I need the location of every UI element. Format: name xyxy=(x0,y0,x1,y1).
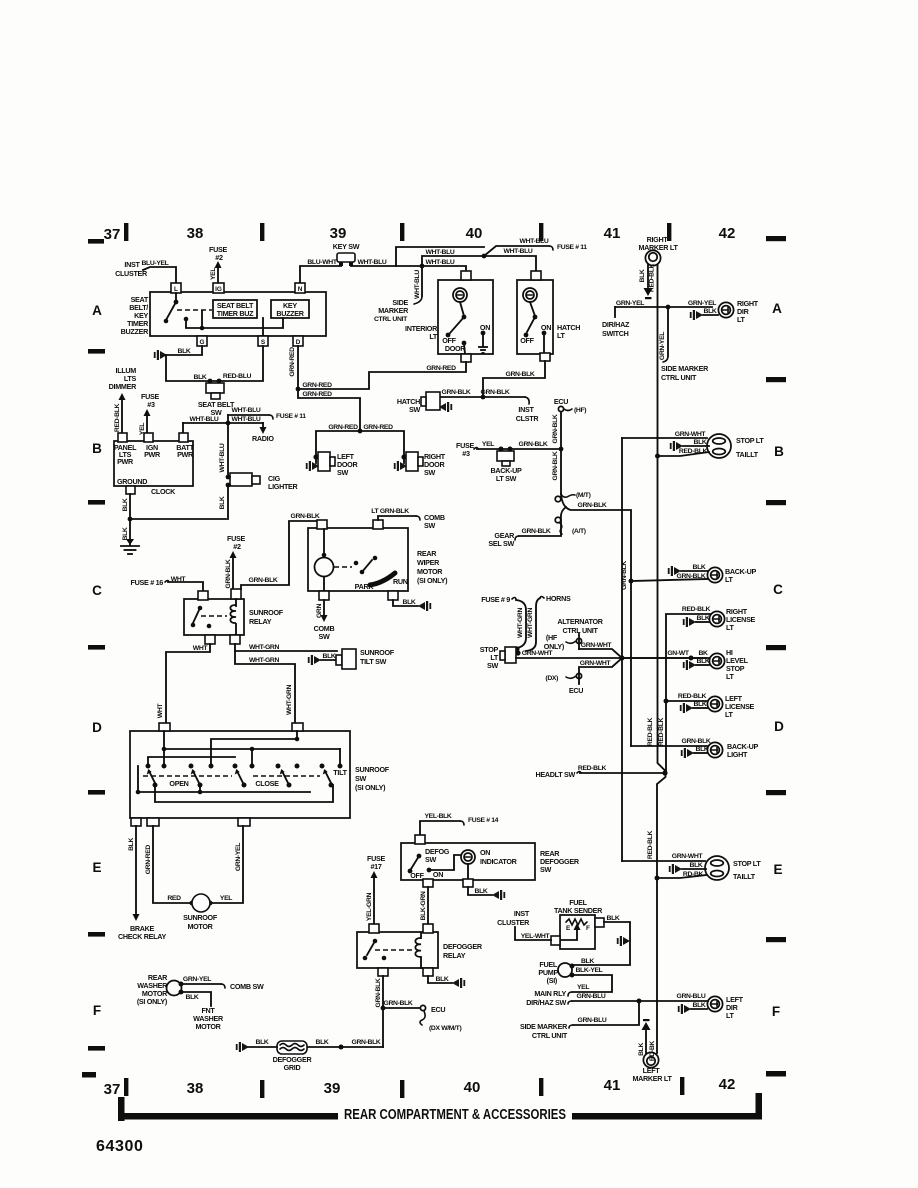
top-left tick dash xyxy=(88,239,104,244)
bottom title bracket xyxy=(118,1097,125,1121)
svg-text:ECU: ECU xyxy=(554,397,568,406)
svg-text:WHT-BLU: WHT-BLU xyxy=(504,248,533,255)
key sw xyxy=(337,253,355,262)
svg-text:RED-BLK: RED-BLK xyxy=(649,263,656,292)
svg-text:42: 42 xyxy=(719,1076,736,1093)
svg-text:ECU: ECU xyxy=(431,1005,445,1014)
svg-text:RD-BK: RD-BK xyxy=(683,871,704,878)
svg-text:MARKER LT: MARKER LT xyxy=(632,1074,672,1083)
svg-text:BLK: BLK xyxy=(696,746,709,753)
branch to door switches xyxy=(298,389,360,431)
wire key sw left to N xyxy=(300,266,341,283)
svg-text:GRN-BLK: GRN-BLK xyxy=(291,513,320,520)
svg-text:BLK: BLK xyxy=(475,888,488,895)
svg-text:GRN-BLK: GRN-BLK xyxy=(506,371,535,378)
svg-text:A: A xyxy=(772,301,782,316)
svg-text:OFF: OFF xyxy=(520,336,534,345)
svg-text:#3: #3 xyxy=(462,449,470,458)
contact dots xyxy=(146,764,343,769)
svg-text:38: 38 xyxy=(187,1080,204,1097)
curve into grn-blk horizontal xyxy=(561,494,631,746)
svg-text:SW: SW xyxy=(424,521,435,530)
svg-text:G: G xyxy=(200,339,205,346)
svg-text:MOTOR: MOTOR xyxy=(187,922,213,931)
svg-text:D: D xyxy=(296,339,301,346)
svg-text:SW: SW xyxy=(409,405,420,414)
svg-text:RED-BLK: RED-BLK xyxy=(678,693,707,700)
right license lt xyxy=(666,614,710,773)
svg-text:SWITCH: SWITCH xyxy=(602,329,629,338)
side marker ctrl unit drop xyxy=(667,307,669,356)
svg-text:BLK-GRN: BLK-GRN xyxy=(420,891,427,920)
svg-text:GRN-RED: GRN-RED xyxy=(302,391,332,398)
svg-text:ON: ON xyxy=(480,848,490,857)
svg-text:DEFOGGER: DEFOGGER xyxy=(443,942,483,951)
svg-text:TANK SENDER: TANK SENDER xyxy=(554,906,603,915)
svg-text:GRN-RED: GRN-RED xyxy=(289,347,296,377)
svg-text:BLK: BLK xyxy=(581,958,594,965)
svg-text:LT: LT xyxy=(429,332,438,341)
svg-text:GRN-BLK: GRN-BLK xyxy=(519,441,548,448)
svg-text:INDICATOR: INDICATOR xyxy=(480,857,518,866)
svg-text:SW: SW xyxy=(319,632,330,641)
svg-text:RED-BLK: RED-BLK xyxy=(114,403,121,432)
left marker lt xyxy=(643,1052,658,1067)
svg-text:GRN-BLK: GRN-BLK xyxy=(249,577,278,584)
svg-text:#17: #17 xyxy=(370,862,381,871)
svg-text:LIGHTER: LIGHTER xyxy=(268,482,299,491)
svg-text:#2: #2 xyxy=(215,253,223,262)
svg-text:CLUSTER: CLUSTER xyxy=(497,918,530,927)
wire inst cluster to L xyxy=(143,267,176,283)
inner box seat belt timer buz xyxy=(213,300,257,318)
svg-text:WHT-BLU: WHT-BLU xyxy=(190,416,219,423)
svg-text:IG: IG xyxy=(215,286,222,293)
bottom terminals xyxy=(131,818,141,826)
svg-text:FUSE # 9: FUSE # 9 xyxy=(481,595,510,604)
left door sw xyxy=(313,454,318,459)
svg-text:RED: RED xyxy=(167,895,181,902)
svg-text:BLK: BLK xyxy=(704,308,717,315)
ground terminal + wire xyxy=(126,486,135,494)
svg-text:LT: LT xyxy=(725,575,734,584)
svg-text:CHECK RELAY: CHECK RELAY xyxy=(118,932,166,941)
svg-text:SEL SW: SEL SW xyxy=(488,539,514,548)
svg-text:GRN-WHT: GRN-WHT xyxy=(580,660,612,667)
grn-blk from relay to wiper motor xyxy=(241,521,322,589)
svg-text:37: 37 xyxy=(104,1081,121,1098)
A/T curl xyxy=(555,517,561,523)
svg-text:GRN-YEL: GRN-YEL xyxy=(688,300,716,307)
svg-text:RED-BLU: RED-BLU xyxy=(223,373,252,380)
hatch lt box xyxy=(517,280,553,354)
svg-text:GRN-BLU: GRN-BLU xyxy=(677,993,706,1000)
svg-text:42: 42 xyxy=(719,225,736,242)
svg-text:BLK: BLK xyxy=(194,374,207,381)
svg-text:BLK: BLK xyxy=(639,269,646,282)
illum lts dimmer xyxy=(109,366,137,391)
svg-text:LIGHT: LIGHT xyxy=(727,750,748,759)
svg-text:(SI ONLY): (SI ONLY) xyxy=(355,783,386,792)
relay internals xyxy=(198,606,203,611)
svg-text:RED-BLK: RED-BLK xyxy=(578,765,607,772)
svg-text:GRN-RED: GRN-RED xyxy=(302,382,332,389)
svg-text:MOTOR: MOTOR xyxy=(195,1022,221,1031)
node to inst clstr xyxy=(483,396,525,398)
svg-text:39: 39 xyxy=(330,225,347,242)
stop lt sw body xyxy=(505,647,516,663)
svg-text:ONLY): ONLY) xyxy=(544,642,565,651)
svg-text:LT: LT xyxy=(725,710,734,719)
svg-text:E: E xyxy=(773,862,782,877)
svg-text:STOP LT: STOP LT xyxy=(733,859,761,868)
side marker ctrl unit xyxy=(573,1001,639,1025)
svg-text:CLSTR: CLSTR xyxy=(516,414,540,423)
svg-text:64300: 64300 xyxy=(96,1138,144,1155)
relay ground xyxy=(428,976,452,983)
blk wire to brake check relay xyxy=(135,826,137,918)
svg-text:YEL: YEL xyxy=(210,268,217,280)
rear defogger sw box xyxy=(401,843,535,880)
riser to fuse11 top line xyxy=(396,247,484,266)
svg-text:MAIN RLY: MAIN RLY xyxy=(534,989,566,998)
svg-text:SIDE MARKER: SIDE MARKER xyxy=(520,1022,568,1031)
svg-text:SUNROOF: SUNROOF xyxy=(360,648,395,657)
svg-text:KEY SW: KEY SW xyxy=(333,242,360,251)
svg-text:WHT-BLU: WHT-BLU xyxy=(232,416,261,423)
svg-text:TILT: TILT xyxy=(333,768,347,777)
inst cluster label xyxy=(115,260,148,278)
svg-text:GRN-YEL: GRN-YEL xyxy=(616,300,644,307)
svg-text:GRN-BLK: GRN-BLK xyxy=(682,738,711,745)
svg-text:YEL-GRN: YEL-GRN xyxy=(366,892,373,921)
buzzer name xyxy=(121,295,149,336)
top-right dash xyxy=(766,236,786,241)
chassis ground xyxy=(121,546,139,554)
svg-text:COMB SW: COMB SW xyxy=(230,982,264,991)
svg-text:CTRL UNIT: CTRL UNIT xyxy=(374,316,408,323)
svg-text:38: 38 xyxy=(187,225,204,242)
svg-text:WHT-GRN: WHT-GRN xyxy=(249,657,279,664)
wire node down to side marker ctrl xyxy=(421,266,423,296)
svg-text:SIDE MARKER: SIDE MARKER xyxy=(661,364,709,373)
defogger grid row xyxy=(341,1046,383,1048)
marker blk ground up xyxy=(645,1031,647,1053)
buzzer internal switch xyxy=(175,293,177,301)
terminal S xyxy=(258,336,268,346)
svg-text:GRN-BLK: GRN-BLK xyxy=(352,1039,381,1046)
blk-grn down to relay xyxy=(427,887,429,924)
svg-text:WHT-BLU: WHT-BLU xyxy=(426,249,455,256)
terminal G xyxy=(197,336,207,346)
svg-text:GRN-BLK: GRN-BLK xyxy=(552,414,559,443)
indicator ground xyxy=(468,887,492,895)
svg-text:TIMER BUZ: TIMER BUZ xyxy=(217,309,254,318)
svg-text:SUNROOF: SUNROOF xyxy=(249,608,284,617)
svg-text:LT GRN-BLK: LT GRN-BLK xyxy=(371,508,409,515)
svg-text:(SI ONLY): (SI ONLY) xyxy=(137,997,168,1006)
svg-text:LT: LT xyxy=(726,1011,735,1020)
svg-text:ON: ON xyxy=(480,323,490,332)
wht-grn wires xyxy=(235,644,337,651)
svg-text:GRN-WHT: GRN-WHT xyxy=(581,642,613,649)
svg-text:RED-BLK: RED-BLK xyxy=(647,717,654,746)
svg-text:FUSE # 11: FUSE # 11 xyxy=(557,244,587,251)
terminal D xyxy=(293,336,303,346)
marker BLK wire to ground xyxy=(647,265,649,287)
fuse 17 xyxy=(367,854,385,871)
svg-text:41: 41 xyxy=(604,225,621,242)
svg-text:STOP LT: STOP LT xyxy=(736,436,764,445)
svg-text:GRN-RED: GRN-RED xyxy=(363,424,393,431)
svg-text:F: F xyxy=(772,1004,780,1019)
radio cluster wires xyxy=(183,422,263,424)
svg-text:#3: #3 xyxy=(147,400,155,409)
inst cluster xyxy=(497,909,530,927)
svg-text:CTRL UNIT: CTRL UNIT xyxy=(562,626,598,635)
svg-text:BLK: BLK xyxy=(178,348,191,355)
svg-text:N: N xyxy=(298,286,303,293)
svg-text:HEADLT SW: HEADLT SW xyxy=(536,770,576,779)
svg-text:FUSE # 16: FUSE # 16 xyxy=(131,578,164,587)
node at 422,266 xyxy=(420,264,425,269)
svg-text:BLK: BLK xyxy=(693,1002,706,1009)
svg-text:GRN-YEL: GRN-YEL xyxy=(183,976,211,983)
svg-text:SW: SW xyxy=(424,468,435,477)
svg-text:WIPER: WIPER xyxy=(417,558,440,567)
terminal L xyxy=(171,283,181,293)
svg-text:GRN-BLK: GRN-BLK xyxy=(384,1000,413,1007)
sunroof motor loop xyxy=(153,826,193,903)
interior lamp bottom terminal + wire xyxy=(461,354,471,362)
svg-text:BLK: BLK xyxy=(256,1039,269,1046)
svg-text:(HF: (HF xyxy=(546,633,558,642)
svg-text:37: 37 xyxy=(104,226,121,243)
alternator ctrl unit xyxy=(557,617,603,635)
svg-text:TILT SW: TILT SW xyxy=(360,657,387,666)
svg-text:BLK: BLK xyxy=(690,862,703,869)
wire dimmer down xyxy=(121,396,123,433)
svg-text:F: F xyxy=(586,925,590,932)
dir/haz switch stub xyxy=(614,307,616,317)
svg-text:BLK: BLK xyxy=(693,564,706,571)
svg-text:WHT-BLU: WHT-BLU xyxy=(219,443,226,472)
svg-text:GRN-YEL: GRN-YEL xyxy=(659,332,666,360)
svg-text:RUN: RUN xyxy=(393,577,408,586)
svg-text:LT: LT xyxy=(726,623,735,632)
svg-text:(HF): (HF) xyxy=(574,407,586,414)
svg-text:GRN-WHT: GRN-WHT xyxy=(522,650,554,657)
svg-text:BLU-YEL: BLU-YEL xyxy=(141,260,168,267)
svg-text:40: 40 xyxy=(466,225,483,242)
grn-blk down xyxy=(382,976,384,1047)
hi level stop lt xyxy=(622,657,709,659)
fuse 2 above relay xyxy=(227,534,245,551)
svg-text:GRN-BLK: GRN-BLK xyxy=(621,561,628,590)
wire node down to interior lamp xyxy=(422,266,466,272)
svg-text:BLK: BLK xyxy=(607,915,620,922)
ecu lower xyxy=(579,658,622,684)
svg-text:D: D xyxy=(774,719,784,734)
svg-text:(DX): (DX) xyxy=(545,675,558,682)
terminal IG xyxy=(213,283,224,293)
grn-red net from D terminal xyxy=(297,346,299,389)
svg-text:CTRL UNIT: CTRL UNIT xyxy=(661,373,697,382)
fuse #2 top xyxy=(209,245,227,262)
hatch lamp wire down xyxy=(483,361,545,397)
svg-text:GRN-BLK: GRN-BLK xyxy=(442,389,471,396)
right dir lt lamp xyxy=(718,302,733,317)
svg-text:S: S xyxy=(261,339,266,346)
wire node to node xyxy=(422,256,484,266)
svg-text:BLK: BLK xyxy=(694,701,707,708)
svg-text:GRN-BLU: GRN-BLU xyxy=(578,1017,607,1024)
svg-text:RELAY: RELAY xyxy=(249,617,272,626)
svg-text:TAILLT: TAILLT xyxy=(736,450,759,459)
svg-text:WHT: WHT xyxy=(193,645,209,652)
main grn-wht wire xyxy=(516,657,706,659)
interior lamp xyxy=(453,288,467,302)
back-up lt sw row xyxy=(456,441,474,458)
svg-text:REAR: REAR xyxy=(417,549,437,558)
row E stop/tail lamp xyxy=(622,860,705,862)
svg-text:GRN-WHT: GRN-WHT xyxy=(672,853,704,860)
svg-text:A: A xyxy=(92,303,102,318)
svg-text:WHT-GRN: WHT-GRN xyxy=(249,644,279,651)
svg-text:OPEN: OPEN xyxy=(169,779,188,788)
svg-text:MOTOR: MOTOR xyxy=(417,567,443,576)
blk from sender xyxy=(595,918,604,927)
terminal N xyxy=(295,283,305,293)
svg-text:GRN-RED: GRN-RED xyxy=(426,365,456,372)
svg-text:WHT-GRN: WHT-GRN xyxy=(286,685,293,715)
svg-text:B: B xyxy=(92,441,102,456)
svg-text:YEL: YEL xyxy=(577,984,589,991)
interior lt box xyxy=(438,280,493,354)
sunroof relay box xyxy=(184,599,244,635)
svg-text:WHT-BLU: WHT-BLU xyxy=(426,259,455,266)
svg-text:BLK: BLK xyxy=(697,658,710,665)
svg-text:BLK: BLK xyxy=(694,439,707,446)
defog sw feed xyxy=(420,821,460,835)
seat belt/key timer buzzer box xyxy=(150,292,326,336)
grn-blk vertical xyxy=(560,412,562,494)
rear washer motor xyxy=(137,973,168,1006)
svg-text:L: L xyxy=(174,286,178,293)
svg-text:WHT-BLU: WHT-BLU xyxy=(232,407,261,414)
svg-text:YEL: YEL xyxy=(220,895,232,902)
svg-text:BLK: BLK xyxy=(219,496,226,509)
svg-text:ON: ON xyxy=(433,870,443,879)
svg-text:41: 41 xyxy=(604,1077,621,1094)
svg-text:SW: SW xyxy=(355,774,366,783)
svg-text:BLK-YEL: BLK-YEL xyxy=(575,967,602,974)
svg-text:(SI ONLY): (SI ONLY) xyxy=(417,576,448,585)
svg-text:GRN-BLK: GRN-BLK xyxy=(225,559,232,588)
svg-text:INST: INST xyxy=(518,405,534,414)
svg-text:RD-BK: RD-BK xyxy=(649,1041,656,1062)
svg-text:BLK: BLK xyxy=(697,615,710,622)
wiper motor internals xyxy=(315,558,334,577)
svg-text:ALTERNATOR: ALTERNATOR xyxy=(557,617,603,626)
wht-blu drop to batt pwr xyxy=(182,423,184,433)
svg-text:PWR: PWR xyxy=(144,450,161,459)
internal ladder xyxy=(163,731,165,765)
svg-text:CLOCK: CLOCK xyxy=(151,487,176,496)
svg-text:MARKER: MARKER xyxy=(378,306,409,315)
svg-text:GRN-BLK: GRN-BLK xyxy=(552,451,559,480)
svg-text:TAILLT: TAILLT xyxy=(733,872,756,881)
svg-text:(SI): (SI) xyxy=(547,976,558,985)
left license lt xyxy=(664,699,669,704)
svg-text:BK: BK xyxy=(698,650,708,657)
svg-text:ON: ON xyxy=(541,323,551,332)
blk-yel to main rly xyxy=(572,975,612,992)
svg-text:GRN-BLU: GRN-BLU xyxy=(577,993,606,1000)
svg-text:SUNROOF: SUNROOF xyxy=(183,913,218,922)
svg-text:YEL-WHT: YEL-WHT xyxy=(521,933,551,940)
svg-text:GRN-BLK: GRN-BLK xyxy=(677,573,706,580)
svg-text:40: 40 xyxy=(464,1079,481,1096)
svg-text:GRN-RED: GRN-RED xyxy=(145,845,152,875)
svg-text:HORNS: HORNS xyxy=(546,594,571,603)
svg-text:WHT-BLU: WHT-BLU xyxy=(358,259,387,266)
svg-text:GRN-YEL: GRN-YEL xyxy=(235,843,242,871)
rear wiper motor box xyxy=(308,528,408,591)
back-up light row D xyxy=(631,745,707,747)
svg-text:D: D xyxy=(92,720,102,735)
on indicator lamp xyxy=(461,850,475,864)
blk to ground xyxy=(393,600,418,606)
svg-text:ECU: ECU xyxy=(569,686,583,695)
svg-text:GRN-RED: GRN-RED xyxy=(328,424,358,431)
svg-text:REAR COMPARTMENT & ACCESSORIES: REAR COMPARTMENT & ACCESSORIES xyxy=(344,1107,566,1123)
svg-text:PWR: PWR xyxy=(117,457,134,466)
svg-text:BLK: BLK xyxy=(436,976,449,983)
seat belt sw xyxy=(206,383,224,393)
svg-text:FUSE # 11: FUSE # 11 xyxy=(276,413,306,420)
wire down to seat belt sw row xyxy=(166,346,263,381)
hatch sw + grn-blk node xyxy=(481,395,486,400)
fuel pump xyxy=(558,963,572,977)
svg-text:(A/T): (A/T) xyxy=(572,528,586,535)
svg-text:YEL-BLK: YEL-BLK xyxy=(424,813,451,820)
svg-text:WHT-BLU: WHT-BLU xyxy=(520,238,549,245)
svg-text:CLOSE: CLOSE xyxy=(255,779,279,788)
fuel tank sender xyxy=(554,898,603,915)
svg-text:RED-BLK: RED-BLK xyxy=(679,448,708,455)
right marker lt xyxy=(638,235,678,252)
svg-text:WHT-GRN: WHT-GRN xyxy=(527,608,534,638)
sunroof sw box xyxy=(130,731,350,818)
svg-text:MARKER LT: MARKER LT xyxy=(638,243,678,252)
wire G to ground xyxy=(162,346,202,355)
M/T curl xyxy=(555,496,561,502)
svg-text:FUSE # 14: FUSE # 14 xyxy=(468,817,499,824)
row C back-up lt xyxy=(629,579,634,584)
svg-text:PWR: PWR xyxy=(177,450,194,459)
svg-text:GRN-BLK: GRN-BLK xyxy=(522,528,551,535)
side marker ctrl unit label xyxy=(374,298,409,323)
svg-text:GN-WT: GN-WT xyxy=(667,650,689,657)
svg-text:LT: LT xyxy=(737,315,746,324)
svg-text:WHT-BLU: WHT-BLU xyxy=(414,270,421,299)
svg-text:E: E xyxy=(92,860,101,875)
svg-text:GRID: GRID xyxy=(284,1063,301,1072)
svg-text:SW: SW xyxy=(487,661,498,670)
svg-text:BLU-WHT: BLU-WHT xyxy=(307,259,337,266)
right door sw xyxy=(401,454,406,459)
